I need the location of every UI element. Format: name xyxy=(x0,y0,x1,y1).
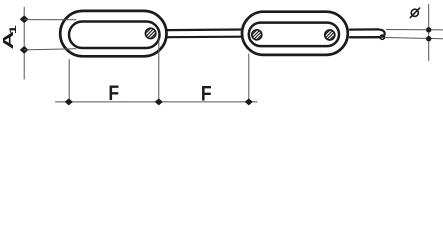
left link inner contour xyxy=(69,22,160,49)
diameter leader bottom horizontal line xyxy=(386,38,443,39)
pitch dimension line (bottom) xyxy=(56,101,258,103)
rounded end cap of right edge-on link xyxy=(378,29,385,36)
right link outer contour xyxy=(242,12,348,55)
svg-text:F: F xyxy=(201,82,212,106)
diameter symbol: circle xyxy=(411,9,418,16)
next link edge-on right, bottom line xyxy=(350,36,380,38)
A1 top arrow (diamond) xyxy=(20,16,28,23)
diameter leader top horizontal line xyxy=(387,29,443,31)
cross wire section, right link right end (hatched circle) xyxy=(320,25,340,45)
left link outer contour xyxy=(60,11,166,56)
leader dot top xyxy=(426,27,431,32)
A1 top extension line xyxy=(24,19,76,21)
cross wire section, right link left end (hatched circle) xyxy=(247,25,267,45)
connecting link seen edge-on (bar between links), top line xyxy=(167,28,242,31)
leader dot bottom xyxy=(426,36,431,41)
dimension diamond middle xyxy=(155,99,162,105)
dimension diamond right xyxy=(245,99,252,105)
svg-text:F: F xyxy=(108,82,119,106)
small wire-end loop at cap xyxy=(380,35,384,39)
right link inner contour xyxy=(249,23,339,46)
A1 bottom extension line xyxy=(24,49,76,50)
F extension line from left link left end xyxy=(68,60,70,105)
F extension line from left link right end xyxy=(158,39,160,105)
svg-text:A1: A1 xyxy=(0,25,18,49)
cross wire section in left link (hatched circle) xyxy=(140,23,160,43)
connecting link edge-on, bottom line xyxy=(167,36,242,39)
next link edge-on at right, top line xyxy=(350,28,378,31)
dimension diamond left xyxy=(65,99,72,105)
F extension line from right link left end xyxy=(248,54,250,105)
A1 bottom arrow (diamond) xyxy=(20,46,28,53)
dimension A1: vertical dimension line xyxy=(23,7,25,79)
diameter leader vertical line xyxy=(428,5,430,61)
diameter symbol: slash xyxy=(410,8,419,18)
